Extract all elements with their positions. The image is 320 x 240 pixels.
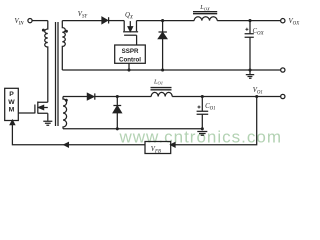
svg-text:W: W (8, 99, 15, 106)
wire LOX to COX (217, 20, 281, 22)
node junction rail-COX (248, 19, 251, 22)
dot secondary 1 polarity (65, 99, 68, 102)
transformer T1 secondary X winding (62, 21, 65, 70)
wire QX to LOX (137, 20, 195, 22)
node VO1 terminal (281, 94, 285, 98)
transformer T1 core (56, 22, 59, 126)
svg-text:VIN: VIN (15, 18, 25, 26)
wire feedback arrow up into PWM (10, 120, 14, 124)
svg-text:VO1: VO1 (253, 87, 263, 95)
ground rail2 at COX (246, 70, 254, 78)
wire LO1 to VO1 (172, 96, 280, 98)
inductor LO1 (151, 92, 172, 96)
node VOX terminal (281, 19, 285, 23)
capacitor COX (249, 21, 251, 70)
diode D1 series (87, 93, 93, 99)
svg-text:VSY: VSY (78, 11, 89, 19)
svg-text:LOX: LOX (199, 4, 210, 11)
wire feedback arrow left (64, 143, 68, 147)
node junction rail-VFB tap (255, 95, 258, 98)
svg-text:P: P (9, 91, 14, 98)
node junction rail2-DX (161, 68, 164, 71)
svg-text:VOX: VOX (289, 18, 301, 26)
svg-text:CO1: CO1 (205, 103, 216, 111)
wire feedback VFB to PWM (12, 124, 145, 145)
svg-text:LO1: LO1 (153, 79, 163, 86)
inductor LOX (194, 17, 217, 21)
svg-text:M: M (9, 106, 15, 113)
wire diode to QX (109, 20, 125, 22)
dot primary polarity (42, 29, 45, 32)
diode D1 freewheel (116, 97, 118, 129)
node junction rail-D1X (116, 95, 119, 98)
node junction rail-CO1 (201, 95, 204, 98)
diode DSY (102, 17, 108, 23)
wire VIN to primary (32, 20, 48, 22)
wire SSPR to rail2 (128, 63, 130, 70)
ground Q1 source (43, 121, 52, 125)
op-amp PWM box (5, 88, 19, 120)
node junction rail-DX (161, 19, 164, 22)
inductor LOX core bars (193, 12, 217, 14)
wire PWM to gate (18, 112, 35, 114)
svg-text:Control: Control (119, 56, 141, 63)
svg-text:COX: COX (253, 28, 265, 36)
wire return rail (63, 128, 202, 130)
op-amp VFB box (145, 142, 171, 154)
wire top rail secondary to diode (62, 20, 102, 22)
transistor Q1 main switch (34, 105, 36, 114)
wire QX gate to SSPR (136, 35, 138, 45)
svg-text:QX: QX (125, 12, 134, 20)
diode DX freewheel X (162, 21, 164, 70)
wire feedback VO1 tap down (175, 97, 257, 145)
node VOX return terminal (281, 68, 285, 72)
node junction rail2-COX (248, 68, 251, 71)
node junction rail2-SSPR (127, 68, 130, 71)
transistor QX (124, 21, 136, 32)
capacitor CO1 (201, 97, 203, 129)
op-amp SSPR control box (115, 45, 146, 63)
node VIN terminal (28, 19, 32, 23)
inductor LO1 core bars (151, 88, 172, 90)
wire rail2 (62, 69, 280, 71)
ground output section (197, 132, 207, 136)
transformer T1 primary winding (45, 21, 48, 103)
op-amp VFB box fill (under watermark) (145, 142, 171, 154)
wire bottom rail winding to diode (63, 96, 87, 98)
wire diode to LO1 (95, 96, 151, 98)
svg-text:SSPR: SSPR (122, 48, 139, 55)
svg-text:www.cntronics.com: www.cntronics.com (119, 128, 282, 147)
dot secondary X polarity (65, 30, 68, 33)
node junction return-CO1 (201, 127, 204, 130)
transformer T1 secondary 1 winding (63, 97, 67, 129)
node junction return-D1 (116, 127, 119, 130)
wire feedback arrow into VFB (171, 143, 175, 147)
